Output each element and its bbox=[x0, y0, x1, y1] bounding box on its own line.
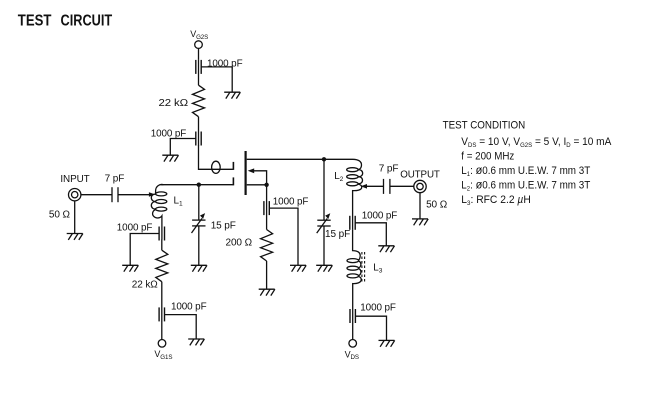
svg-text:15 pF: 15 pF bbox=[211, 220, 236, 231]
svg-text:1000 pF: 1000 pF bbox=[117, 223, 153, 234]
svg-text:1000 pF: 1000 pF bbox=[151, 129, 187, 140]
svg-text:50 Ω: 50 Ω bbox=[426, 200, 448, 211]
svg-text:22 kΩ: 22 kΩ bbox=[132, 280, 159, 291]
svg-text:INPUT: INPUT bbox=[60, 174, 89, 185]
svg-text:1000 pF: 1000 pF bbox=[171, 302, 207, 313]
svg-text:1000 pF: 1000 pF bbox=[362, 211, 398, 222]
svg-text:50 Ω: 50 Ω bbox=[49, 210, 71, 221]
svg-text:L1: ø0.6 mm U.E.W. 7 mm 3T: L1: ø0.6 mm U.E.W. 7 mm 3T bbox=[461, 163, 590, 178]
svg-text:1000 pF: 1000 pF bbox=[207, 59, 243, 70]
svg-text:1000 pF: 1000 pF bbox=[273, 197, 309, 208]
svg-text:f = 200 MHz: f = 200 MHz bbox=[461, 150, 514, 162]
svg-text:15 pF: 15 pF bbox=[325, 229, 350, 240]
svg-text:OUTPUT: OUTPUT bbox=[400, 170, 440, 181]
svg-text:TEST: TEST bbox=[18, 13, 52, 30]
svg-text:22 kΩ: 22 kΩ bbox=[159, 98, 189, 109]
svg-text:200 Ω: 200 Ω bbox=[226, 238, 253, 249]
svg-text:7 pF: 7 pF bbox=[379, 164, 399, 175]
svg-text:7 pF: 7 pF bbox=[105, 174, 125, 185]
svg-text:VDS = 10 V, VG2S = 5 V, ID = 1: VDS = 10 V, VG2S = 5 V, ID = 10 mA bbox=[461, 136, 612, 149]
svg-text:L3: RFC 2.2 µH: L3: RFC 2.2 µH bbox=[461, 194, 531, 207]
svg-text:1000 pF: 1000 pF bbox=[360, 303, 396, 314]
svg-text:CIRCUIT: CIRCUIT bbox=[61, 13, 113, 30]
svg-text:L2: ø0.6 mm U.E.W. 7 mm 3T: L2: ø0.6 mm U.E.W. 7 mm 3T bbox=[461, 177, 590, 192]
svg-text:TEST CONDITION: TEST CONDITION bbox=[443, 120, 526, 132]
